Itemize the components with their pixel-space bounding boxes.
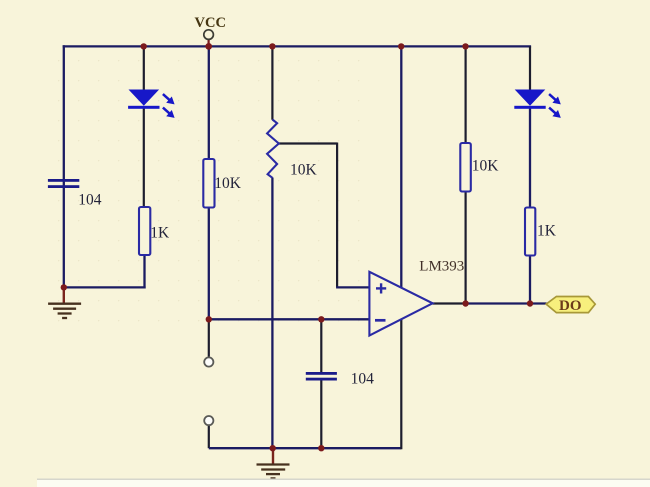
- svg-text:DO: DO: [559, 298, 582, 314]
- svg-text:10K: 10K: [214, 175, 242, 192]
- wire R1 top from rail: [208, 46, 210, 159]
- wire bottom-left to ground node: [64, 286, 146, 288]
- probe terminal 2: [204, 416, 213, 425]
- wire C2 bottom: [320, 380, 322, 448]
- junction dot bottom-ground: [270, 445, 276, 451]
- wire C2 top: [320, 319, 322, 372]
- junction dot bottom-C2: [318, 445, 324, 451]
- ground symbol bottom: [257, 448, 290, 478]
- LED D2 triangle: [515, 90, 546, 106]
- junction dot rail-opamp-power: [398, 43, 404, 49]
- wire to non-inverting input: [336, 286, 369, 288]
- wire RP bottom to ground rail: [271, 178, 273, 449]
- wire R4 bottom to output: [529, 255, 531, 304]
- junction dot inverting net at C2: [318, 316, 324, 322]
- svg-text:VCC: VCC: [195, 15, 226, 31]
- junction dot inverting net at R1: [206, 316, 212, 322]
- op-amp plus symbol: [376, 283, 386, 293]
- wire wiper vertical: [336, 143, 338, 288]
- junction dot output-R4: [527, 300, 533, 306]
- LED D1 cathode bar: [128, 106, 159, 109]
- capacitor C1 plates: [48, 179, 79, 188]
- svg-text:1K: 1K: [150, 224, 170, 241]
- wire R2 bottom: [143, 255, 145, 289]
- wire op-amp power column: [400, 46, 402, 292]
- wire R3 bottom to output: [465, 191, 467, 304]
- junction dot rail-R3: [462, 43, 468, 49]
- svg-text:1K: 1K: [537, 223, 557, 240]
- capacitor C2 plates: [306, 372, 337, 381]
- LED D1 triangle: [129, 90, 160, 106]
- probe terminal 1: [204, 357, 213, 366]
- ground symbol left: [48, 287, 81, 318]
- DO output flag: [546, 297, 595, 313]
- resistor R1 body: [203, 159, 214, 208]
- svg-text:10K: 10K: [472, 158, 500, 175]
- wire LED1 anode from rail: [143, 46, 145, 91]
- bottom edge line: [37, 478, 650, 480]
- LED D2 arrow 1: [549, 94, 561, 104]
- wire output net black part: [433, 302, 466, 304]
- junction dot output-R3: [462, 300, 468, 306]
- wire LED1 cathode to R2: [143, 108, 145, 208]
- potentiometer RP zigzag: [267, 120, 279, 178]
- VCC terminal stem: [208, 39, 210, 46]
- svg-text:10K: 10K: [290, 162, 318, 179]
- junction dot rail-RP: [269, 43, 275, 49]
- svg-text:LM393: LM393: [419, 258, 464, 274]
- svg-text:104: 104: [351, 371, 375, 388]
- LED D1 arrow 1: [163, 94, 175, 104]
- wire output net: [466, 302, 547, 304]
- VCC terminal circle: [204, 30, 214, 40]
- svg-text:104: 104: [78, 191, 102, 208]
- op-amp minus symbol: [375, 319, 386, 322]
- wire R1 bottom to node A: [208, 207, 210, 319]
- junction dot left ground node: [61, 284, 67, 290]
- wire top VCC rail: [63, 45, 531, 47]
- wire inverting input net: [209, 318, 369, 320]
- wire LED2 anode from rail: [529, 46, 531, 90]
- wire RP top from rail: [271, 46, 273, 119]
- wire left column net C1: [63, 45, 65, 287]
- wire node A to probe terminal 1: [208, 319, 210, 356]
- resistor R3 body: [460, 143, 471, 192]
- op-amp U1 LM393 triangle: [369, 272, 432, 336]
- wire wiper horizontal: [279, 142, 337, 144]
- wire R3 top from rail: [465, 46, 467, 143]
- LED D2 cathode bar: [514, 106, 545, 109]
- junction dot rail-LED1: [141, 43, 147, 49]
- LED D2 arrow 2: [549, 108, 561, 118]
- wire LED2 cathode to R4: [529, 108, 531, 208]
- resistor R2 body: [139, 207, 150, 255]
- junction dot rail-VCC: [205, 43, 212, 50]
- wire probe terminal 2 to bottom rail: [208, 426, 210, 448]
- wire bottom ground rail: [209, 447, 401, 449]
- LED D1 arrow 2: [163, 108, 175, 118]
- resistor R4 body: [525, 208, 535, 256]
